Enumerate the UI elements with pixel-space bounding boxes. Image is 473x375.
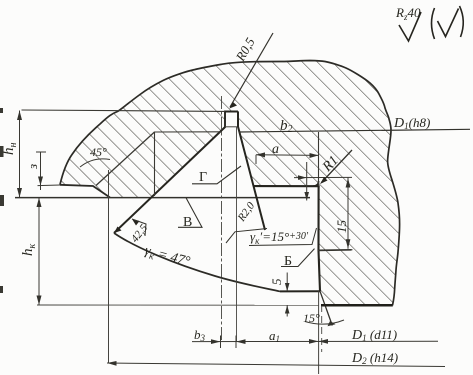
label 42.5 rotated with arrow [129, 219, 151, 245]
spline right side thin [318, 132, 320, 186]
blob outline stroke [60, 61, 400, 306]
dimension a line [256, 152, 319, 164]
gullet bottom arc [114, 233, 280, 291]
left extension vertical to D2 [108, 170, 110, 363]
extension vertical groove right [318, 291, 320, 374]
15deg angle arc bottom [305, 320, 344, 324]
dimension 15 line [346, 178, 351, 249]
svg-text:Г: Г [199, 170, 207, 185]
svg-text:γк′=15°+30′: γк′=15°+30′ [250, 229, 309, 246]
groove right wall [319, 186, 321, 291]
extension vertical right of land [236, 127, 238, 342]
svg-text:15°: 15° [303, 311, 320, 325]
svg-text:D2 (h14): D2 (h14) [351, 350, 398, 366]
R0.5 leader [230, 33, 273, 107]
bottom dimension line b3/a1/D1(d11) [192, 336, 438, 349]
blob bottom edge [321, 304, 393, 307]
tooth land bottom surface left [60, 185, 110, 198]
tooth front face 42.5deg [114, 127, 226, 233]
15deg slant edge [320, 291, 332, 325]
svg-text:a: a [272, 142, 279, 157]
ledge extension to dim15 [318, 249, 353, 252]
rake face 15deg [238, 111, 265, 230]
spline side corner thin lines [155, 132, 223, 196]
D2 dimension line [107, 361, 445, 367]
svg-text:15: 15 [334, 220, 349, 234]
label R2.0 rotated with leader [226, 200, 267, 243]
label B (Б) with underline and leader [281, 249, 315, 269]
svg-text:R0,5: R0,5 [232, 35, 258, 65]
svg-text:b3: b3 [194, 327, 206, 343]
svg-text:hн: hн [1, 143, 19, 156]
Rz40 roughness symbol [395, 5, 421, 41]
lower reference line y305 [37, 304, 319, 306]
svg-text:hк: hк [20, 244, 38, 257]
tip line extension [22, 110, 226, 111]
dimension h_n line [17, 111, 22, 198]
small tick with arrow y177.6 [294, 175, 352, 180]
spline root ledge [318, 249, 352, 252]
45deg chamfer thin line [96, 132, 155, 186]
label Gamma with underline and leader [192, 166, 241, 185]
material blob: hatched section [60, 61, 400, 306]
small vertical x306.7 with down arrow [304, 162, 309, 201]
svg-text:γк = 47°: γк = 47° [142, 243, 191, 271]
a1 arrows [309, 339, 328, 344]
svg-text:5: 5 [269, 278, 284, 285]
svg-text:D1 (d11): D1 (d11) [351, 327, 397, 343]
dimension z line [36, 152, 46, 190]
label gamma_k' = 15+-30' [249, 228, 317, 246]
R1 fillet corner [313, 181, 319, 186]
tooth tip land rectangle [225, 112, 238, 127]
svg-text:з: з [25, 164, 40, 170]
scan edge marks [0, 108, 4, 293]
z bottom extension [38, 184, 61, 187]
groove lower floor [280, 290, 320, 292]
svg-text:D1(h8): D1(h8) [393, 115, 430, 131]
main horizontal surface line [15, 197, 310, 199]
arc end arrowhead [114, 227, 122, 234]
svg-text:45°: 45° [90, 145, 107, 159]
D1(h8) line right [239, 129, 470, 132]
dimension 5 [285, 273, 290, 317]
svg-text:a1: a1 [269, 328, 280, 344]
svg-text:R2,0: R2,0 [235, 200, 257, 225]
R1 leader with arrow [320, 150, 352, 184]
label V (В) flag [178, 198, 202, 230]
dimension h_k line [37, 198, 42, 305]
svg-text:42,5: 42,5 [129, 222, 151, 245]
land bottom tick [225, 126, 238, 128]
groove upper floor [254, 185, 320, 187]
(check) symbol [432, 6, 464, 39]
centerline vertical through land [221, 96, 223, 342]
45 deg arc [80, 159, 110, 167]
